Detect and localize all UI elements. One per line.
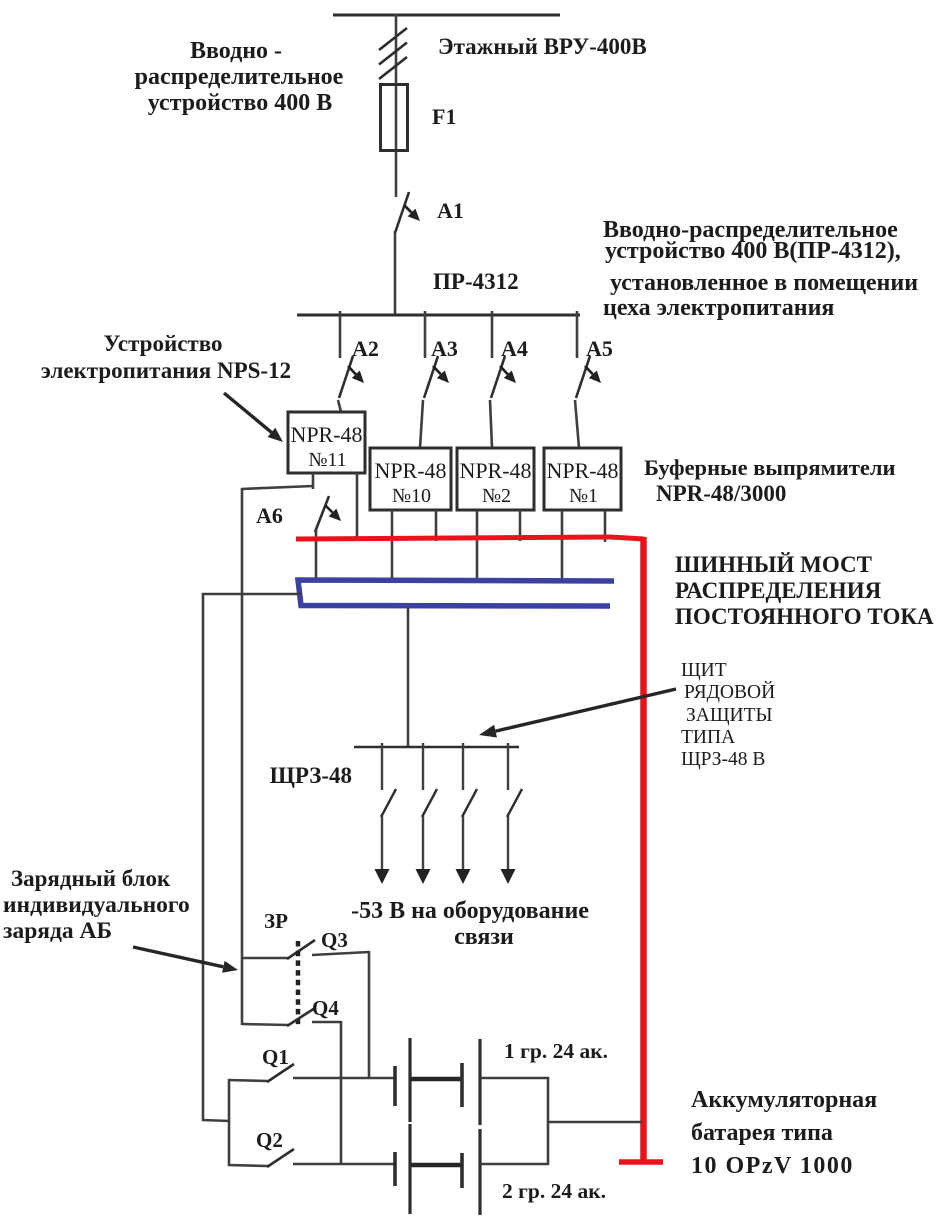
svg-text:цеха электропитания: цеха электропитания <box>603 295 834 321</box>
svg-text:Этажный ВРУ-400В: Этажный ВРУ-400В <box>438 34 647 59</box>
feeder 2: wire to load arrow <box>422 816 424 872</box>
switch Q1: blade <box>267 1064 294 1082</box>
feeder 1: wire to load arrow <box>381 816 383 872</box>
battery cell 2: short plate <box>460 1153 464 1188</box>
svg-text:№2: №2 <box>482 485 511 507</box>
wire: bus to breaker А5 <box>576 311 579 358</box>
svg-text:-53 В на оборудование: -53 В на оборудование <box>351 898 589 924</box>
breaker А5 <box>576 356 590 398</box>
svg-text:№11: №11 <box>308 449 346 471</box>
svg-text:индивидуального: индивидуального <box>3 892 190 918</box>
battery cell: long plate <box>408 1124 411 1214</box>
svg-text:NPR-48/3000: NPR-48/3000 <box>656 481 786 506</box>
svg-text:ПР-4312: ПР-4312 <box>433 269 519 294</box>
switch Q4: left wire <box>242 1024 288 1025</box>
svg-text:ЩРЗ-48 В: ЩРЗ-48 В <box>681 749 765 770</box>
rectifier box NPR-48 №2 <box>457 448 534 510</box>
svg-text:Устройство: Устройство <box>104 331 223 356</box>
wire: tap from №11 lead to charger column <box>241 486 313 489</box>
wire: bus to breaker А3 <box>424 311 427 358</box>
red bus: positive rail horizontal <box>296 537 612 539</box>
wire: box №2 left lead to blue bus <box>476 510 479 582</box>
breaker A1 <box>395 192 409 233</box>
svg-text:ТИПА: ТИПА <box>681 727 735 748</box>
svg-text:Q1: Q1 <box>262 1045 289 1069</box>
wire: between battery cells (thick) <box>411 1077 462 1082</box>
wire: box №1 right lead to red bus <box>604 510 607 542</box>
wire: left column vertical (x=203) <box>202 593 205 1121</box>
svg-text:связи: связи <box>454 924 514 950</box>
feeder 4: wire from ЩРЗ bus <box>507 743 509 790</box>
feeder 3: switch blade <box>462 789 477 817</box>
wire: Q4 right down to Q2 row <box>340 1021 343 1165</box>
wire: bus to breaker А2 <box>339 311 342 358</box>
wire: box №11 right lead to red bus <box>356 473 359 541</box>
feeder 4: load arrowhead <box>501 869 516 884</box>
svg-text:А2: А2 <box>352 336 379 361</box>
switch Q1: right wire <box>293 1077 396 1080</box>
wire: A1 to ПР-4312 bus <box>394 231 397 316</box>
wire: box №1 left lead to blue bus <box>561 510 564 582</box>
svg-text:ЗАЩИТЫ: ЗАЩИТЫ <box>686 705 773 726</box>
svg-text:РАСПРЕДЕЛЕНИЯ: РАСПРЕДЕЛЕНИЯ <box>675 578 882 603</box>
wire: Q3 right down to Q1 row <box>368 951 371 1079</box>
wire: battery group 2 to right bracket <box>481 1163 549 1166</box>
svg-text:Аккумуляторная: Аккумуляторная <box>691 1087 877 1113</box>
switch Q1: left wire <box>228 1080 268 1081</box>
svg-text:F1: F1 <box>432 104 456 129</box>
feeder 3: load arrowhead <box>456 869 471 884</box>
rectifier box NPR-48 №1 <box>544 448 621 510</box>
wire: breaker А3 to rectifier box <box>420 400 423 448</box>
svg-text:электропитания NPS-12: электропитания NPS-12 <box>41 358 291 383</box>
svg-text:ЗР: ЗР <box>264 909 288 933</box>
wire: breaker А5 to rectifier box <box>575 400 579 448</box>
svg-text:Q3: Q3 <box>321 928 348 952</box>
svg-text:А3: А3 <box>431 336 458 361</box>
svg-text:А6: А6 <box>256 503 283 528</box>
battery cell 2: short plate <box>460 1063 464 1107</box>
annotation arrow to ЩРЗ bus <box>496 689 676 731</box>
bus: ПР-4312 400V bus <box>297 314 580 317</box>
wire: breaker А2 to rectifier box <box>338 400 341 412</box>
svg-text:NPR-48: NPR-48 <box>374 458 446 483</box>
red bus: jog to right rail <box>610 537 644 539</box>
feeder 1: load arrowhead <box>375 869 390 884</box>
wire: battery group 1 to right bracket <box>481 1077 549 1080</box>
wire: blue bus center tap down to ЩРЗ bus <box>407 607 410 748</box>
svg-text:NPR-48: NPR-48 <box>290 422 362 447</box>
wire: charger column vertical (x=242) <box>241 488 244 958</box>
svg-text:устройство 400 В: устройство 400 В <box>148 90 332 116</box>
wire: box №11 left lead <box>312 473 315 489</box>
battery cell: long plate <box>408 1038 411 1122</box>
svg-text:А1: А1 <box>437 198 464 223</box>
red bus: right rail vertical <box>640 537 647 1163</box>
breaker А3 <box>424 356 438 398</box>
switch Q3: blade <box>287 940 315 959</box>
wire: blue bus to left column <box>202 593 302 596</box>
svg-text:№10: №10 <box>392 485 431 507</box>
line-break marks (three slashes) <box>379 28 407 50</box>
battery cell 2: long plate <box>478 1129 481 1215</box>
svg-text:распределительное: распределительное <box>135 64 344 90</box>
svg-text:1 гр. 24 ак.: 1 гр. 24 ак. <box>504 1039 608 1063</box>
svg-text:NPR-48: NPR-48 <box>546 458 618 483</box>
battery cell: short plate <box>393 1066 397 1106</box>
feeder 1: wire from ЩРЗ bus <box>381 743 383 790</box>
fuse F1 <box>381 85 408 151</box>
switch Q4: right wire <box>312 1021 341 1024</box>
wire: box №10 left lead to blue bus <box>391 510 394 582</box>
svg-text:ПОСТОЯННОГО ТОКА: ПОСТОЯННОГО ТОКА <box>675 604 934 629</box>
svg-text:Вводно -: Вводно - <box>190 38 282 64</box>
svg-text:10 OPzV 1000: 10 OPzV 1000 <box>691 1153 854 1179</box>
svg-text:Зарядный блок: Зарядный блок <box>11 866 171 891</box>
svg-text:Q4: Q4 <box>312 996 339 1020</box>
feeder 2: load arrowhead <box>416 869 431 884</box>
svg-text:ЩИТ: ЩИТ <box>681 660 727 681</box>
wire: drop from riser to fuse F1 <box>395 14 398 197</box>
wire: breaker А4 to rectifier box <box>490 400 492 448</box>
svg-text:устройство 400 В(ПР-4312),: устройство 400 В(ПР-4312), <box>605 238 901 264</box>
switch Q4: blade <box>287 1008 315 1026</box>
rectifier box NPR-48 №10 <box>370 448 451 510</box>
switch Q2: right wire <box>293 1163 396 1166</box>
wire: bus to breaker А4 <box>491 311 494 358</box>
svg-text:А5: А5 <box>586 336 613 361</box>
feeder 2: switch blade <box>422 789 437 817</box>
feeder 4: wire to load arrow <box>507 816 509 872</box>
svg-text:№1: №1 <box>569 485 598 507</box>
wire: battery right bracket <box>547 1077 550 1165</box>
feeder 1: switch blade <box>381 789 396 817</box>
wire: between battery cells (thick) <box>411 1163 462 1168</box>
svg-text:NPR-48: NPR-48 <box>459 458 531 483</box>
feeder 3: wire from ЩРЗ bus <box>462 743 464 790</box>
svg-text:заряда АБ: заряда АБ <box>3 918 112 944</box>
breaker А2 <box>339 356 353 398</box>
bus: ЩРЗ-48 distribution bus <box>354 746 519 749</box>
switch Q3: left wire <box>242 957 288 960</box>
feeder 3: wire to load arrow <box>462 816 464 872</box>
annotation arrow to NPR-48 №11 <box>224 393 272 432</box>
svg-text:батарея типа: батарея типа <box>691 1120 833 1146</box>
svg-text:РЯДОВОЙ: РЯДОВОЙ <box>684 682 775 703</box>
mechanical link ЗР (dotted) <box>296 941 301 1026</box>
breaker А4 <box>491 356 505 398</box>
svg-text:2 гр. 24 ак.: 2 гр. 24 ак. <box>502 1179 606 1203</box>
annotation arrow to charger switches <box>133 947 223 967</box>
svg-text:Q2: Q2 <box>256 1128 283 1152</box>
wire: left column to Q1/Q2 bracket <box>202 1120 230 1121</box>
wire: charger column Q3 to Q4 <box>241 958 244 1025</box>
svg-text:ЩРЗ-48: ЩРЗ-48 <box>270 763 352 788</box>
svg-text:Буферные выпрямители: Буферные выпрямители <box>644 455 896 480</box>
wire: box №2 right lead to red bus <box>519 510 522 541</box>
svg-text:А4: А4 <box>501 336 528 361</box>
battery cell: short plate <box>393 1152 397 1186</box>
switch Q2: left wire <box>228 1165 268 1166</box>
wire: floor riser bus (top horizontal) <box>333 14 560 17</box>
rectifier box NPR-48 №11 <box>288 412 365 473</box>
feeder 2: wire from ЩРЗ bus <box>422 743 424 790</box>
wire: box №10 right lead to red bus <box>435 510 438 541</box>
svg-text:установленное в помещении: установленное в помещении <box>610 270 918 296</box>
wire: Q1-Q2 left bracket <box>228 1079 231 1166</box>
switch Q2: blade <box>267 1149 294 1167</box>
wire: bracket to red rail <box>548 1121 642 1124</box>
switch Q3: right wire <box>312 952 369 955</box>
blue bus: DC distribution bus bar <box>298 580 614 606</box>
battery cell 2: long plate <box>478 1039 481 1125</box>
feeder 4: switch blade <box>507 789 522 817</box>
svg-text:ШИННЫЙ МОСТ: ШИННЫЙ МОСТ <box>675 552 872 577</box>
breaker A6 <box>315 496 329 532</box>
red bus: bottom tee cap <box>619 1159 663 1165</box>
wire: A6 to blue bus <box>315 530 318 582</box>
